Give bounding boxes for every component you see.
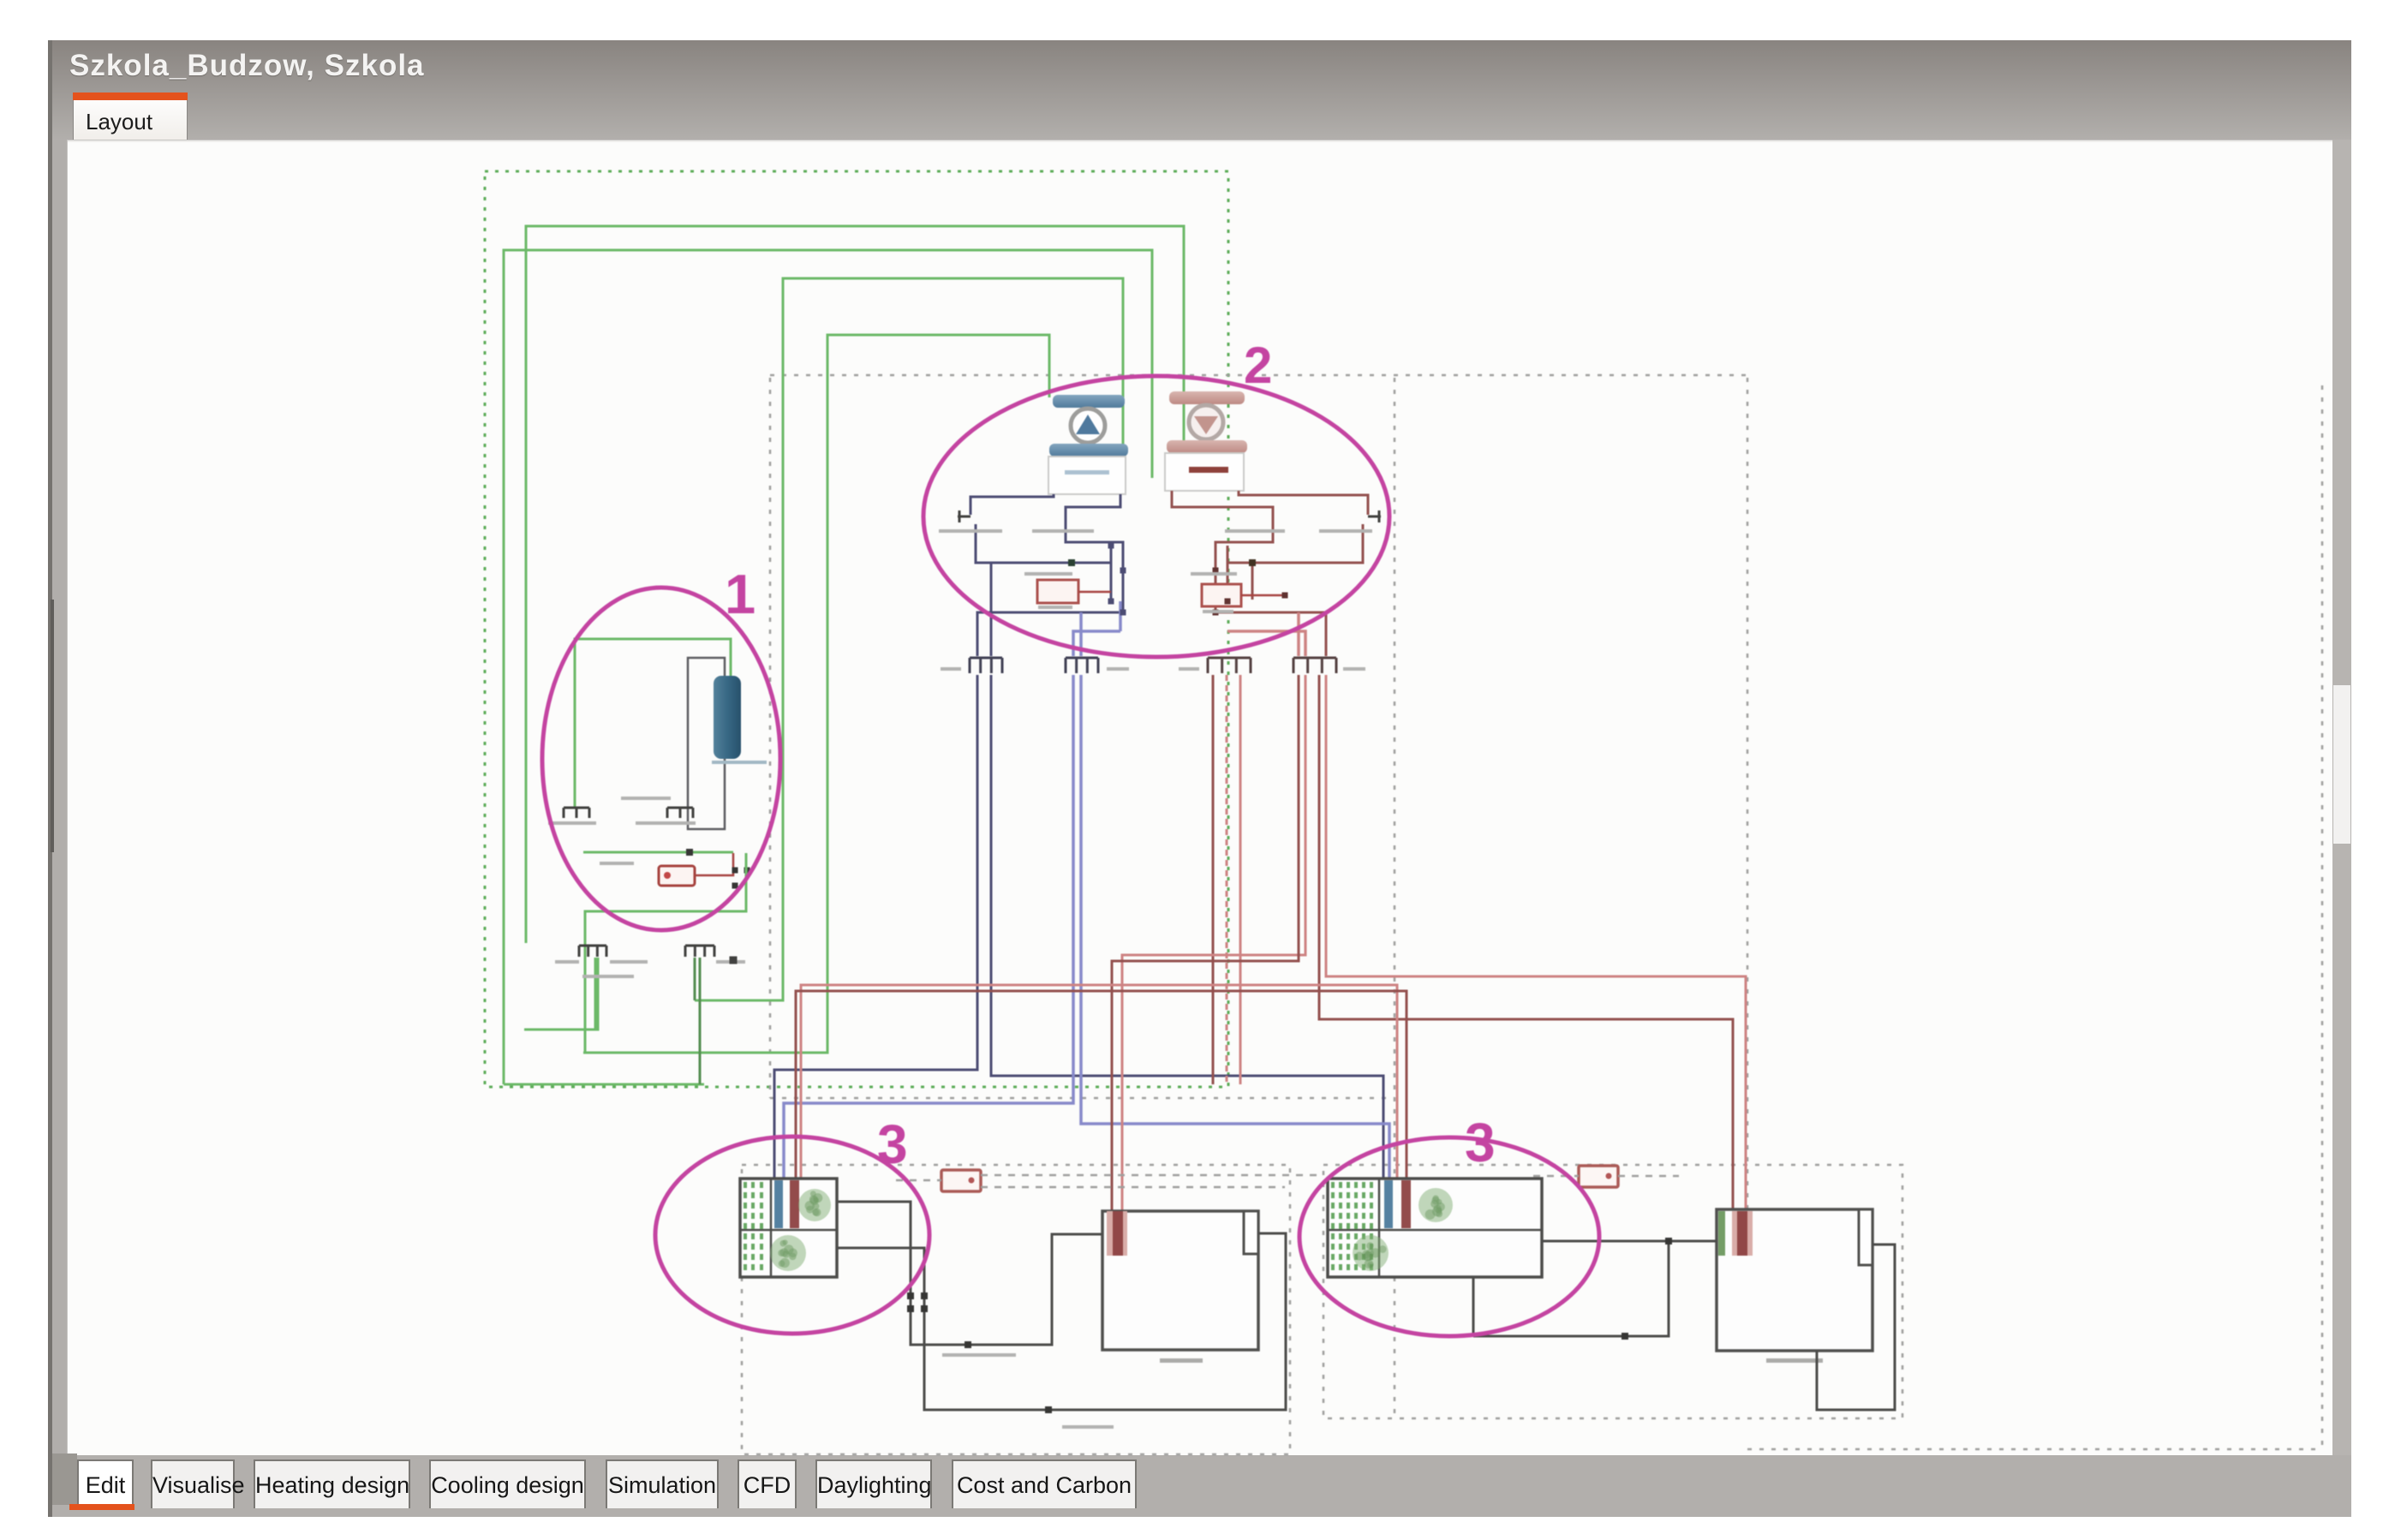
outside air notch Z2	[1859, 1209, 1872, 1265]
svg-text:1: 1	[725, 563, 756, 625]
wire: outer air duct (green)	[526, 226, 1184, 943]
controller C2	[1202, 584, 1241, 606]
wire: zone supply B (navy)	[991, 675, 1383, 1179]
supply fan F1 (blue)	[1048, 395, 1128, 494]
svg-text:2: 2	[1244, 337, 1272, 394]
controller C1	[1037, 580, 1078, 603]
zone mixer Z-M1 (maroon)	[1179, 658, 1251, 673]
wire: exhaust riser (green)	[584, 958, 587, 1053]
wire: vent riser (dark green)	[699, 958, 702, 1084]
thermostat T1	[941, 1170, 981, 1191]
heating coil bar U2 (maroon)	[1401, 1180, 1411, 1228]
label row (faint)	[1191, 529, 1372, 613]
duct: U2 to Z2 supply (black)	[1473, 1241, 1717, 1336]
mixer X2	[685, 945, 714, 947]
wire: supply air pipe n5 (navy)	[990, 563, 993, 656]
water heater W1	[712, 676, 767, 764]
splitter S1	[564, 807, 589, 809]
wire: zone supply A (navy)	[774, 675, 977, 1179]
wire: supply air pipe n3 (navy)	[1066, 494, 1123, 612]
label row (faint)	[942, 1353, 1114, 1429]
wire: fresh air duct C (green)	[583, 335, 1049, 1053]
ellipse annotation 3 (left)	[655, 1137, 929, 1334]
wire: duct loop via comb (green)	[524, 958, 598, 1030]
wire: C2 link (dark red)	[1241, 594, 1285, 597]
cooling coil bar U2 (steel blue)	[1384, 1180, 1393, 1228]
duct: U1 to Z1 supply (black)	[837, 1202, 1102, 1345]
heating coil bar U1 (maroon)	[790, 1180, 799, 1228]
zone unit U2 (fan coil group)	[1328, 1179, 1542, 1277]
wire: hw feed Z2 supply (rose)	[1326, 675, 1746, 1221]
tree icon U1b	[770, 1235, 806, 1271]
wire: hw feed Z1 supply (rose)	[1122, 675, 1305, 1221]
wire: return air pipe m4 (maroon)	[1215, 612, 1326, 656]
fan F2 label box	[1165, 453, 1244, 491]
wire: boiler return (green)	[585, 853, 746, 958]
wire: T1 dashed link east	[981, 1175, 1319, 1187]
node J2	[732, 868, 750, 889]
zone group box left (gray dashed)	[742, 1165, 1290, 1454]
wire: unit link return (maroon)	[796, 991, 1407, 1179]
wire: T2 dashed link	[1533, 1175, 1679, 1178]
fan F1 label box	[1048, 457, 1126, 494]
ellipse annotation 3 (right)	[1299, 1137, 1599, 1336]
outside air notch Z1	[1244, 1211, 1258, 1254]
return fan F2 (rose)	[1165, 391, 1247, 491]
wire: return air pipe m5 (maroon)	[1251, 563, 1254, 600]
wire: hw riser M3a (maroon)	[1212, 675, 1215, 1084]
wire: hw riser M3b (rose dashed)	[1226, 675, 1228, 1084]
wire: return air pipe m2 (maroon)	[1227, 524, 1363, 563]
wire: supply air pipe n1 (navy)	[971, 494, 1054, 515]
heating coil stripes U2 (green)	[1333, 1182, 1371, 1274]
mixer X1	[667, 807, 693, 809]
node (maroon junctions)	[1213, 559, 1288, 616]
wire: return air duct (green)	[504, 250, 1152, 1084]
wire: setpoint link (dark red)	[695, 853, 733, 875]
node J1	[686, 849, 693, 856]
zone unit U1 (fan coil group)	[740, 1179, 837, 1277]
pin stub P2a	[1368, 510, 1381, 522]
node junctions U1	[907, 1292, 1052, 1413]
cooling coil bar U1 (steel blue)	[774, 1180, 783, 1228]
svg-text:3: 3	[1465, 1112, 1496, 1173]
wire: C1 link (dark red)	[1078, 591, 1111, 594]
wire: hw riser M3c (rose)	[1239, 675, 1242, 1084]
wire: hw feed Z1 return (maroon)	[1112, 675, 1299, 1221]
label row (faint)	[939, 529, 1094, 609]
zone box Z2 (middle-right)	[1717, 1209, 1872, 1363]
wire: boiler loop (green)	[583, 851, 733, 854]
zone mixer Z-M2 (rose)	[1293, 658, 1365, 673]
wire: T1 dashed link west	[896, 1179, 941, 1182]
label row 2 (faint)	[555, 957, 745, 979]
tree icon U2a	[1418, 1188, 1453, 1222]
pipe riser pair (dark)	[688, 658, 725, 829]
zone group box right (gray dashed)	[1323, 1165, 1902, 1418]
duct: Z1 to U1 return (black)	[837, 1233, 1286, 1410]
zone HVAC group boundary D1 (gray dashed)	[770, 375, 1750, 1098]
wire: supply air pipe n4 (navy)	[977, 612, 1120, 656]
radiator R2	[1718, 1211, 1753, 1256]
ellipse annotation 1	[542, 588, 780, 930]
duct: Z2 to U2 return (black)	[1817, 1245, 1895, 1410]
node (navy junctions)	[1068, 543, 1126, 616]
svg-text:3: 3	[877, 1113, 908, 1175]
zone splitter Z-S1 (navy)	[941, 658, 1002, 673]
wire: return air pipe m3 (maroon)	[1172, 491, 1273, 612]
heating coil stripes U1 (green)	[745, 1182, 761, 1274]
zone box Z1 (middle-left)	[1102, 1211, 1258, 1363]
tree icon U1a	[798, 1189, 831, 1221]
splitter S2	[579, 945, 606, 947]
label row (faint)	[548, 797, 696, 865]
wire: zone return B (periwinkle)	[1081, 675, 1389, 1179]
ellipse annotation 2	[923, 376, 1389, 657]
pin stub P1a	[958, 510, 971, 522]
wire: unit link supply (rose)	[801, 985, 1397, 1179]
tree icon U2b	[1353, 1235, 1389, 1271]
wire: supply air pipe n2 (navy)	[976, 524, 1111, 563]
zone splitter Z-S2 (periwinkle)	[1066, 658, 1129, 673]
air loop boundary (green dotted)	[485, 171, 1228, 1087]
zone HVAC group boundary D3 right (gray dashed)	[1747, 385, 2322, 1449]
wire: mixed air pipe (periwinkle)	[1073, 631, 1120, 656]
wire: return air pipe m1 (maroon)	[1239, 491, 1368, 515]
wire: hw feed Z2 return (maroon)	[1319, 675, 1733, 1221]
wire: zone return A (periwinkle)	[784, 675, 1073, 1179]
zone HVAC group boundary D2 (gray dashed)	[1395, 378, 1747, 1418]
thermostat T2	[1579, 1166, 1618, 1187]
radiator R1	[1107, 1211, 1127, 1256]
wire: mixed return pipe (rose)	[1227, 631, 1305, 656]
node junctions U2	[1622, 1238, 1672, 1340]
wire: hot water pipe top (green)	[575, 639, 731, 808]
wire: fresh air duct B (green)	[695, 278, 1123, 1000]
setpoint manager SP1	[659, 866, 695, 886]
